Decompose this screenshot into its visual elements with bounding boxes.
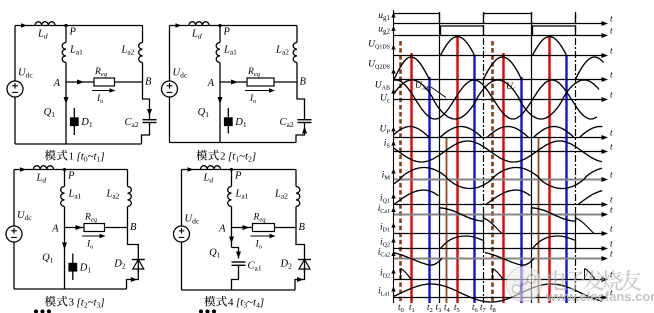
svg-text:P: P	[67, 171, 75, 182]
inductor L_a2 on right branch (mode 2)	[275, 26, 297, 83]
voltage source U_dc (mode 3)	[6, 210, 32, 242]
waveform i_D1: diode D1 current decay ramps	[484, 218, 595, 234]
waveform U_c: resonant capacitor voltage sinusoid	[394, 80, 598, 119]
waveform i_M: magnetizing current	[394, 168, 603, 189]
inductor L_a1 between node P and node A (mode 2)	[216, 26, 237, 83]
waveform i_La1: resonant inductor L_a1 current	[394, 284, 603, 302]
diode D1 (anti-parallel body diode of Q1, filled symbol) (mode 2)	[224, 108, 247, 134]
wire: left rail connecting U_dc source (mode 3)	[13, 170, 15, 227]
capacitor C_a1 on branch below node A with charging arrow (mode 4)	[232, 248, 262, 291]
wire: R_eq to node B (mode 3)	[105, 227, 128, 229]
wire: input current arrow on top rail (mode 3)	[20, 167, 26, 172]
resistor R_eq (mode 2)	[247, 67, 274, 86]
voltage source U_dc (mode 2)	[162, 68, 188, 98]
wire: left rail connecting U_dc source (mode 2)	[169, 26, 171, 82]
wire: R_eq to node B (mode 1)	[115, 81, 143, 83]
axis of waveform row U_Q1DS with t label	[368, 40, 613, 59]
diode D1 (anti-parallel body diode of Q1, filled symbol) (mode 3)	[68, 254, 91, 281]
diode D2 on right branch below node B with current arrow (mode 4)	[280, 228, 312, 291]
inductor L_a1 between node P and node A (mode 1)	[62, 26, 83, 83]
wire: top rail from source via L_d to node P and L_a2 (mode 3)	[14, 169, 128, 171]
capacitor C_a2 on right branch below node B (mode 1)	[125, 82, 157, 144]
ellipsis dots below mode 3	[34, 309, 51, 313]
wire: left rail connecting U_dc source (mode 1)	[14, 26, 16, 82]
wire: R_eq to node B (mode 4)	[275, 227, 297, 229]
inner curve label U_AB with leader line	[415, 81, 446, 98]
inductor L_a2 on right branch (mode 3)	[106, 170, 132, 228]
time grid line period-2 blue (t2')	[520, 77, 522, 303]
inductor L_a2 on right branch (mode 1)	[121, 26, 143, 83]
switch Q1 (vertical line below node A) with current arrow (mode 2)	[198, 82, 223, 143]
svg-text:[t1~t2]: [t1~t2]	[228, 151, 256, 164]
inductor L_d (mode 2)	[189, 22, 209, 41]
axis of waveform row i_Q2 with t label	[380, 238, 613, 252]
axis of waveform row i_S with t label	[384, 139, 613, 155]
svg-text:A: A	[53, 78, 61, 89]
caption: mode 2 [t1~t2]	[196, 150, 256, 164]
node P (mode 3)	[63, 168, 75, 182]
resistor R_eq (mode 3)	[84, 213, 105, 232]
svg-text:A: A	[207, 78, 215, 89]
axis of waveform row i_La1 with t label	[378, 287, 613, 301]
time grid line period-2 brown (t4')	[538, 138, 540, 303]
caption: mode 1 [t0~t1]	[45, 150, 105, 164]
waveform i_S: source current sinusoid	[394, 141, 603, 162]
wire: bottom return rail (mode 1)	[15, 143, 142, 145]
load current I_o arrow and label (mode 3)	[82, 234, 106, 251]
wire: top rail from source via L_d to node P and L_a2 (mode 2)	[170, 25, 298, 27]
ellipsis dots below mode 4	[199, 309, 216, 313]
wire: R_eq to node B (mode 2)	[274, 81, 297, 83]
axis of waveform row U_AB / U_c with t label	[394, 90, 614, 103]
svg-text:www.elecfans.com: www.elecfans.com	[545, 289, 654, 304]
svg-text:P: P	[69, 27, 77, 38]
resistor R_eq (mode 4)	[253, 213, 275, 232]
watermark: Chinese brand text	[548, 270, 642, 291]
time grid line period-2 red (t5')	[548, 37, 550, 303]
inductor L_a1 between node P and node A (mode 3)	[61, 170, 82, 228]
svg-text:4: 4	[228, 297, 234, 309]
wire: node A to R_eq with current arrow (mode 4)	[232, 227, 253, 229]
svg-text:[t0~t1]: [t0~t1]	[77, 151, 105, 164]
wire: bottom return rail (mode 3)	[14, 288, 127, 290]
time grid line period-2 red (t1')	[502, 53, 504, 303]
caption: mode 4 [t3~t4]	[204, 296, 264, 310]
svg-text:A: A	[51, 224, 59, 235]
waveform i_Q2: Q2 channel current humps	[441, 236, 576, 249]
svg-text:B: B	[299, 222, 306, 233]
time grid line period-2 blue (t6')	[565, 56, 567, 303]
load current I_o arrow and label (mode 2)	[245, 88, 275, 105]
diode D2 on right branch below node B with current arrow (mode 3)	[113, 228, 145, 290]
axis of waveform row u_g1 with t label	[378, 11, 613, 26]
time grid line t8 (brown dashed, start of next period)	[491, 41, 494, 303]
time grid line t7 (black dash-dot, Q2 turn-off)	[483, 12, 485, 303]
time grid line period-2 black dash-dot (t7')	[575, 12, 577, 303]
watermark: elecfans logo circle	[507, 266, 542, 302]
waveform U_P: node P voltage rectified arches	[391, 127, 602, 138]
axis of waveform row u_g2 with t label	[378, 25, 613, 39]
svg-text:1: 1	[69, 151, 75, 163]
switch Q1 (vertical line below node A) with current arrow (mode 3)	[42, 228, 67, 290]
svg-text:B: B	[300, 77, 307, 88]
waveform U_Q2DS: Q2 drain-source voltage humps	[394, 57, 604, 80]
time grid line t0 (brown dashed, ZVS transition)	[399, 41, 402, 303]
wire: left rail connecting U_dc source (mode 4)	[181, 170, 183, 227]
time grid line t3 (black, Q1 turn-off)	[439, 12, 441, 303]
wire: node A to R_eq with current arrow (mode 2)	[220, 81, 247, 83]
svg-text:P: P	[223, 27, 231, 38]
load current I_o arrow and label (mode 4)	[251, 234, 276, 251]
switch Q1 (line below node A) with current arrow (mode 4)	[209, 228, 234, 260]
axis of waveform row i_D2 with t label	[380, 269, 613, 283]
caption: mode 3 [t2~t3]	[45, 296, 105, 310]
axis of waveform row i_Ca2 with t label	[378, 248, 613, 262]
y-axis vertical line of timing diagram	[393, 10, 395, 303]
waveform i_D2: diode D2 current decay ramps	[401, 269, 596, 280]
wire: top rail from source via L_d to node P and L_a2 (mode 4)	[182, 169, 297, 171]
waveform i_Ca1: snubber capacitor C_a1 current	[440, 208, 576, 222]
wire: bottom return rail (mode 4)	[182, 289, 296, 291]
time axis labels t0..t8	[398, 302, 496, 313]
voltage source U_dc (mode 4)	[174, 214, 200, 243]
load current I_o arrow and label (mode 1)	[92, 88, 116, 105]
waveform i_Q1: Q1 channel current humps	[394, 190, 602, 205]
svg-text:B: B	[130, 222, 137, 233]
capacitor C_a2 on right branch below node B (mode 2)	[280, 82, 312, 143]
wire: node A to R_eq with current arrow (mode 3)	[65, 227, 85, 229]
wire: input current arrow on top rail (mode 1)	[21, 23, 27, 28]
time grid line period-2 black (t3')	[531, 12, 533, 303]
inductor L_a1 between node P and node A (mode 4)	[228, 170, 249, 228]
svg-text:2: 2	[220, 151, 226, 163]
node P (mode 1)	[64, 24, 76, 38]
diode D1 (anti-parallel body diode of Q1, filled symbol) (mode 1)	[70, 108, 93, 135]
inductor L_d (mode 4)	[201, 166, 221, 185]
time grid line t2 (blue)	[428, 77, 430, 303]
svg-text:3: 3	[69, 297, 75, 309]
axis of waveform row U_Q2DS with t label	[368, 60, 613, 83]
time grid line t4 (brown, partial height)	[446, 138, 448, 303]
axis of waveform row U_P with t label	[380, 125, 614, 141]
inductor L_a2 on right branch (mode 4)	[274, 170, 300, 228]
y-axis arrowheads for each waveform row	[391, 13, 395, 292]
time grid line t6 (blue)	[473, 56, 475, 303]
time grid line t5 (red)	[456, 37, 458, 303]
waveform i_Ca2: snubber capacitor C_a2 current	[393, 253, 534, 266]
node P (mode 2)	[218, 24, 230, 38]
waveform u_g2: gate drive square wave of Q2	[441, 26, 576, 36]
svg-text:P: P	[234, 171, 242, 182]
switch Q1 (vertical line below node A) with current arrow (mode 1)	[44, 82, 69, 144]
waveform u_g1: gate drive square wave of Q1	[394, 14, 576, 24]
node P (mode 4)	[230, 168, 242, 182]
axis of waveform row i_D1 with t label	[380, 223, 613, 237]
wire: input current arrow on top rail (mode 4)	[188, 167, 194, 172]
svg-text:[t2~t3]: [t2~t3]	[77, 297, 105, 310]
inductor L_d (mode 3)	[34, 166, 54, 185]
svg-text:[t3~t4]: [t3~t4]	[236, 297, 264, 310]
waveform U_AB: bridge voltage quasi-sinusoid	[394, 80, 600, 119]
wire: top rail from source via L_d to node P and L_a2 (mode 1)	[15, 25, 143, 27]
axis of waveform row i_Q1 with t label	[380, 194, 613, 208]
wire: bottom return rail (mode 2)	[170, 142, 297, 144]
waveform U_Q1DS: Q1 drain-source voltage humps	[441, 37, 567, 56]
axis of waveform row i_M with t label	[382, 170, 613, 183]
wire: input current arrow on top rail (mode 2)	[176, 23, 182, 28]
svg-text:B: B	[145, 77, 152, 88]
inductor L_d (mode 1)	[35, 22, 55, 41]
time grid line t1 (red)	[410, 53, 412, 303]
voltage source U_dc (mode 1)	[7, 68, 33, 98]
wire: node A to R_eq with current arrow (mode 1)	[66, 81, 94, 83]
svg-text:A: A	[218, 224, 226, 235]
resistor R_eq (mode 1)	[94, 67, 115, 86]
axis of waveform row i_Ca1 with t label	[378, 204, 613, 217]
